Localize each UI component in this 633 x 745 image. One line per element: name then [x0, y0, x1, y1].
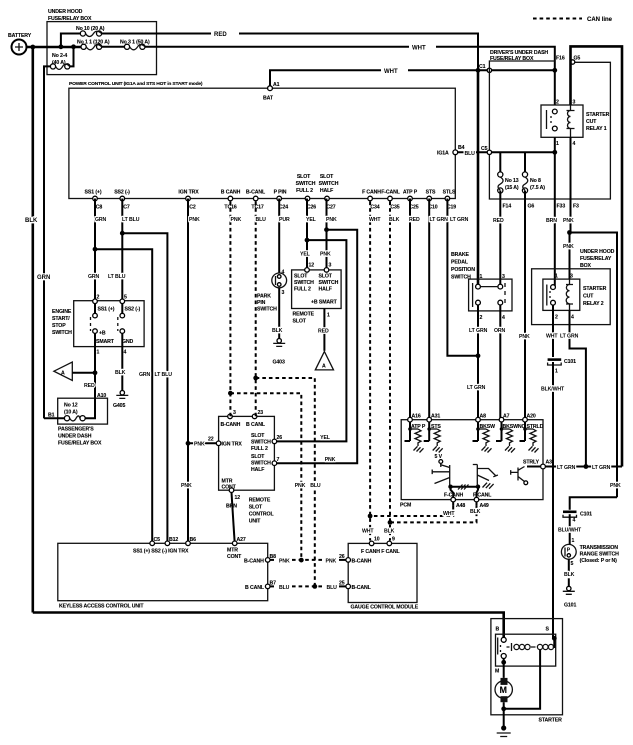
node F16 vertical joins BAT line — [552, 68, 557, 73]
CAN line legend — [533, 18, 582, 20]
pin TC16 B CANH — [228, 196, 233, 201]
pin 3 B-CANH — [228, 414, 233, 419]
svg-text:BLK: BLK — [564, 572, 575, 578]
svg-text:BLK: BLK — [384, 529, 395, 535]
svg-text:CONTROL: CONTROL — [249, 512, 275, 518]
pin C7 SS2 — [120, 196, 125, 201]
node no10 junction — [59, 44, 64, 49]
svg-text:23: 23 — [258, 410, 264, 416]
wire MTR CONT BRN down to keyless A27 — [232, 493, 235, 544]
svg-text:FUSE/RELAY BOX: FUSE/RELAY BOX — [58, 441, 102, 447]
svg-text:UNDER DASH: UNDER DASH — [58, 434, 92, 440]
svg-text:PEDAL: PEDAL — [451, 260, 469, 266]
svg-text:BRN: BRN — [546, 218, 557, 224]
svg-text:4: 4 — [571, 315, 574, 321]
wire F16 down to relay1 pin2 — [554, 70, 556, 105]
svg-text:GND: GND — [122, 339, 134, 345]
svg-text:TC17: TC17 — [251, 205, 263, 211]
svg-text:A48: A48 — [456, 503, 465, 509]
node relay2 LT GRN joins — [584, 464, 589, 469]
svg-text:BLU: BLU — [279, 585, 290, 591]
svg-text:PNK: PNK — [189, 217, 200, 223]
svg-text:M: M — [495, 669, 499, 675]
svg-text:WHT: WHT — [384, 69, 398, 75]
svg-text:B CANL: B CANL — [245, 585, 265, 591]
svg-text:3: 3 — [282, 290, 285, 296]
svg-text:(10 A): (10 A) — [64, 410, 78, 416]
pin B8 B-CANH — [265, 558, 270, 563]
contact bars — [472, 283, 474, 307]
connector C101 pin4 — [563, 510, 577, 513]
svg-text:YEL: YEL — [306, 217, 317, 223]
svg-text:9: 9 — [392, 537, 395, 543]
off-page triangle A — [315, 352, 333, 370]
svg-text:LT GRN: LT GRN — [430, 217, 449, 223]
svg-text:PUR: PUR — [279, 217, 290, 223]
wire SS1 GRN down — [94, 199, 96, 302]
svg-text:LT GRN: LT GRN — [592, 465, 611, 471]
wire A48 WHT dashed to bus — [452, 502, 454, 506]
pin C34 F CANH — [368, 196, 373, 201]
svg-text:SS2 (-): SS2 (-) — [125, 307, 141, 313]
svg-text:1: 1 — [556, 141, 559, 147]
dashed B-CANL branch — [256, 378, 315, 586]
svg-text:1: 1 — [555, 274, 558, 280]
pin 4 — [498, 300, 503, 305]
svg-text:LT GRN: LT GRN — [560, 334, 579, 340]
svg-text:PNK: PNK — [326, 559, 337, 565]
svg-text:C26: C26 — [307, 205, 316, 211]
node relay1 pin1 joins C5 line — [552, 150, 557, 155]
switch contact SS2 — [121, 303, 123, 313]
svg-text:No 3 1 (50 A): No 3 1 (50 A) — [120, 40, 150, 46]
pin 1 — [476, 284, 481, 289]
svg-text:GRN: GRN — [88, 274, 100, 280]
svg-text:No 2-4: No 2-4 — [52, 53, 67, 59]
svg-text:PNK: PNK — [326, 217, 337, 223]
dashed B-CANL vertical from TC17 — [255, 202, 257, 417]
svg-text:B-CANL: B-CANL — [246, 190, 266, 196]
ground G405 — [120, 391, 124, 395]
svg-text:PNK: PNK — [181, 483, 192, 489]
dashed wire B8 to gauge 26 — [270, 559, 274, 561]
svg-text:G405: G405 — [113, 403, 125, 409]
svg-text:4: 4 — [502, 315, 505, 321]
svg-text:FULL 2: FULL 2 — [296, 188, 313, 194]
svg-text:BAT: BAT — [263, 96, 274, 102]
SECTION: engine switch — [44, 199, 167, 544]
wire G6 PNK down to A20 — [524, 191, 526, 420]
svg-text:SWITCH: SWITCH — [319, 181, 339, 187]
transmission range switch — [561, 544, 576, 559]
svg-text:BATTERY: BATTERY — [8, 33, 32, 39]
svg-text:(7.5 A): (7.5 A) — [530, 185, 545, 191]
pin A7 BKSWNC — [499, 417, 504, 422]
svg-text:STARTER: STARTER — [586, 112, 610, 118]
pin 26 B-CANH — [346, 558, 351, 563]
wire brake pin4 ORN down — [500, 305, 501, 420]
pin C19 STLS — [445, 196, 450, 201]
svg-text:STARTER: STARTER — [583, 286, 607, 292]
label BLU on B-CANL dashed — [310, 482, 321, 488]
connector C101 pin1 — [548, 358, 562, 361]
wire YEL branch to rscu pin26 — [277, 240, 346, 441]
svg-text:POWER CONTROL UNIT (IG1A and: POWER CONTROL UNIT (IG1A and STS HOT in … — [69, 81, 203, 87]
svg-text:+B SMART: +B SMART — [311, 300, 338, 306]
node battery junction — [30, 45, 35, 50]
pin 7 slot switch half — [272, 461, 277, 466]
svg-text:SS2 (-): SS2 (-) — [114, 190, 130, 196]
pulldown resistor A16 — [405, 422, 424, 453]
svg-text:PNK: PNK — [320, 252, 331, 258]
svg-text:CUT: CUT — [586, 119, 597, 125]
wire relay2 pin4 LT GRN down right — [570, 310, 586, 466]
twisted pair hatch — [451, 486, 479, 488]
svg-text:F CANH F CANL: F CANH F CANL — [361, 549, 400, 555]
svg-text:10: 10 — [374, 537, 380, 543]
pin A16 ATP P — [408, 417, 413, 422]
wire RED down to C5 line and brake switch — [477, 70, 480, 286]
pin B7 B CANL — [265, 584, 270, 589]
wire battery to fusebox — [27, 46, 84, 49]
wire branch to rscu pin 22 — [188, 442, 216, 444]
wire to No10 fuse — [61, 34, 81, 47]
transistor Q1 — [432, 463, 450, 487]
fuse No 13 (15 A) — [498, 172, 503, 177]
connector C1 — [487, 68, 491, 72]
wire pin1 RED down — [94, 347, 96, 399]
wire IGN TRX PNK down to keyless B6 — [187, 199, 189, 544]
svg-text:PNK: PNK — [325, 457, 336, 463]
svg-text:G101: G101 — [564, 603, 576, 609]
svg-text:BLU/WHT: BLU/WHT — [558, 528, 582, 534]
wire IG1A to C5 fuses — [458, 151, 555, 153]
svg-text:RELAY 2: RELAY 2 — [583, 301, 604, 307]
svg-text:GAUGE CONTROL MODULE: GAUGE CONTROL MODULE — [351, 605, 419, 611]
svg-text:M: M — [500, 685, 508, 695]
svg-text:STRLY: STRLY — [523, 460, 540, 466]
node F-CANL — [476, 485, 480, 489]
wire SS1 branch to keyless C5 — [95, 249, 152, 543]
wire coil return up — [504, 650, 540, 709]
wire C10 LT GRN down to A31 — [428, 199, 430, 420]
relay1 contact — [552, 109, 557, 114]
svg-text:PASSENGER'S: PASSENGER'S — [58, 427, 94, 433]
wire to fuse No13 — [499, 152, 501, 174]
svg-text:LT GRN: LT GRN — [450, 217, 469, 223]
relay2 contact — [551, 285, 556, 290]
svg-text:7: 7 — [277, 457, 280, 463]
svg-text:SWITCH: SWITCH — [294, 280, 314, 286]
svg-text:GRN: GRN — [95, 217, 107, 223]
svg-text:No 13: No 13 — [505, 178, 519, 184]
svg-text:LT GRN: LT GRN — [467, 385, 486, 391]
dashed wire B7 to gauge 25 — [270, 585, 274, 587]
ground starter — [501, 725, 506, 730]
SECTION: legend — [533, 17, 613, 23]
starter box — [491, 619, 563, 715]
svg-text:SS1 (+): SS1 (+) — [98, 307, 115, 313]
wire F3 PNK down to junction — [570, 199, 572, 233]
svg-text:G6: G6 — [528, 204, 535, 210]
wire YEL down — [306, 199, 308, 270]
ground G403 — [277, 339, 281, 343]
svg-text:A49: A49 — [480, 503, 489, 509]
park pin switch — [272, 273, 287, 288]
svg-text:SLOT: SLOT — [249, 505, 263, 511]
node B-CANL joins — [312, 584, 317, 589]
node RED joins BAT line — [476, 68, 481, 73]
svg-text:3: 3 — [573, 100, 576, 106]
svg-text:WHT: WHT — [546, 334, 558, 340]
node SS1 branch — [93, 247, 98, 252]
svg-text:12: 12 — [309, 263, 315, 269]
svg-text:1: 1 — [327, 313, 330, 319]
svg-text:C34: C34 — [370, 205, 379, 211]
svg-text:BLK/WHT: BLK/WHT — [541, 387, 565, 393]
svg-text:3: 3 — [570, 274, 573, 280]
node PNK branch — [324, 227, 329, 232]
svg-text:4: 4 — [573, 141, 576, 147]
svg-text:UNDER HOOD: UNDER HOOD — [580, 249, 615, 255]
svg-text:PNK: PNK — [279, 559, 290, 565]
svg-text:26: 26 — [277, 435, 283, 441]
svg-text:No 8: No 8 — [530, 178, 541, 184]
svg-text:A3: A3 — [546, 460, 553, 466]
svg-text:STLS: STLS — [443, 190, 456, 196]
fuse No 12 (10 A) — [85, 398, 95, 418]
svg-text:ORN: ORN — [494, 328, 506, 334]
svg-text:25: 25 — [339, 581, 345, 587]
wire park pin BLK down — [278, 288, 280, 339]
pulldown resistor A8 — [473, 422, 492, 453]
svg-text:3: 3 — [502, 274, 505, 280]
svg-text:A1: A1 — [273, 82, 280, 88]
wire to fuse No8 — [524, 152, 526, 174]
dashed F CANH vertical — [369, 202, 371, 541]
wire PNK right side to C101 pin4 — [570, 497, 617, 510]
svg-text:C1: C1 — [479, 64, 486, 70]
label PNK on B-CANH dashed — [294, 482, 307, 488]
svg-text:IGN TRX: IGN TRX — [222, 442, 243, 448]
wire STLS from C19 — [447, 199, 478, 356]
svg-text:LT BLU: LT BLU — [122, 217, 140, 223]
svg-text:BLU: BLU — [310, 483, 321, 489]
svg-text:+B: +B — [99, 331, 106, 337]
svg-text:C8: C8 — [96, 205, 103, 211]
SECTION: brake relay2 trs — [410, 199, 622, 639]
node B-CANH joins — [299, 558, 304, 563]
pin B4 IG1A — [453, 150, 458, 155]
wire SS2 branch to keyless B12 — [122, 233, 167, 543]
SECTION: drivers box relay1 — [437, 46, 622, 497]
pin C35 F-CANL — [388, 196, 393, 201]
svg-text:BLU: BLU — [327, 585, 338, 591]
off-page triangle A — [54, 362, 72, 380]
dashed B-CANH branch to keyless B8 line — [230, 393, 301, 560]
svg-text:PNK: PNK — [610, 483, 621, 489]
wire F14 RED down to brake pin3 — [499, 191, 501, 287]
pin A3 STRLY — [541, 464, 546, 469]
node F CANL bus — [388, 520, 393, 525]
node F-CANH — [448, 485, 452, 489]
svg-text:BOX: BOX — [580, 263, 592, 269]
svg-text:P PIN: P PIN — [274, 190, 287, 196]
svg-text:F16: F16 — [556, 56, 565, 62]
svg-text:A10: A10 — [97, 393, 106, 399]
node F CANH bus — [368, 514, 373, 519]
wire relay2 pin2 WHT down — [552, 305, 554, 357]
pin C8 SS1 — [93, 196, 98, 201]
svg-text:C101: C101 — [580, 512, 592, 518]
svg-text:RANGE SWITCH: RANGE SWITCH — [580, 552, 620, 558]
node IGN TRX branch — [186, 441, 191, 446]
svg-text:WHT: WHT — [369, 217, 381, 223]
svg-text:2: 2 — [555, 315, 558, 321]
svg-text:SWITCH: SWITCH — [251, 440, 271, 446]
svg-text:1: 1 — [480, 274, 483, 280]
svg-text:SLOT: SLOT — [251, 433, 265, 439]
pin C26 SLOT SWITCH FULL 2 — [305, 196, 310, 201]
wire brake pin2 LT GRN down — [477, 305, 479, 420]
svg-text:G403: G403 — [273, 360, 285, 366]
wire SS2 LT BLU down — [121, 199, 123, 302]
svg-text:C101: C101 — [564, 359, 576, 365]
svg-text:2: 2 — [480, 315, 483, 321]
dashed B-CANH vertical from TC16 — [229, 202, 231, 417]
svg-text:C5: C5 — [154, 537, 161, 543]
svg-text:2: 2 — [97, 295, 100, 301]
SECTION: park pin slot — [257, 199, 357, 464]
wire F33 BRN down to relay2 pin1 — [554, 199, 556, 287]
svg-text:YEL: YEL — [320, 435, 331, 441]
svg-text:4: 4 — [282, 270, 285, 276]
pin C5 — [150, 541, 155, 546]
svg-text:CUT: CUT — [583, 294, 594, 300]
pulldown resistor A31 — [424, 422, 443, 453]
svg-text:LT GRN: LT GRN — [469, 328, 488, 334]
svg-text:PNK: PNK — [563, 218, 574, 224]
wire fuse2-4 to main — [70, 47, 74, 67]
engine start/stop switch box — [74, 301, 144, 347]
passengers under dash fuse/relay box — [58, 398, 108, 424]
svg-text:BLK: BLK — [115, 370, 126, 376]
node PNK junction — [567, 230, 572, 235]
svg-text:IGN TRX: IGN TRX — [178, 190, 199, 196]
wire pin4 BLK down to G405 — [121, 347, 123, 391]
svg-text:3: 3 — [233, 410, 236, 416]
SECTION: pcm — [368, 202, 552, 541]
svg-text:WHT: WHT — [443, 511, 455, 517]
svg-text:CONT: CONT — [227, 554, 242, 560]
transistor Q2 — [473, 465, 498, 487]
svg-text:RED: RED — [409, 217, 420, 223]
pin 5 — [120, 299, 125, 304]
wire BLK/WHT down to starter S — [552, 362, 554, 638]
pin C25 ATP P — [408, 196, 413, 201]
fuse No 8 (7.5 A) — [522, 172, 527, 177]
svg-text:5: 5 — [124, 295, 127, 301]
pin 9 F CANL — [387, 541, 392, 546]
svg-text:C2: C2 — [189, 205, 196, 211]
svg-text:HALF: HALF — [251, 467, 264, 473]
svg-text:HALF: HALF — [319, 287, 332, 293]
svg-text:PCM: PCM — [400, 503, 411, 509]
relay2 coil — [566, 285, 573, 305]
pin A1 — [268, 86, 273, 91]
svg-text:GRN: GRN — [37, 275, 50, 281]
SECTION: rscu — [186, 199, 283, 544]
svg-text:REMOTE: REMOTE — [249, 498, 271, 504]
node B-CANL branch — [253, 376, 258, 381]
svg-text:SS1 (+): SS1 (+) — [85, 190, 102, 196]
pin C10 STS — [427, 196, 432, 201]
pin A8 BKSW — [476, 417, 481, 422]
svg-text:HALF: HALF — [320, 188, 333, 194]
wire relay1 pin1 down to F33 — [554, 137, 556, 199]
wire A49 BLK dashed to bus — [476, 502, 478, 506]
svg-text:PNK: PNK — [194, 442, 205, 448]
wire PUR down — [278, 199, 280, 274]
svg-text:SLOT: SLOT — [251, 454, 265, 460]
wire fuse2-4 left down GRN — [44, 66, 50, 418]
pin 22 IGN TRX — [216, 441, 221, 446]
pin 10 F CANH — [369, 541, 374, 546]
svg-text:WHT: WHT — [412, 46, 426, 52]
wire between fuses — [102, 46, 125, 48]
svg-text:F CANH: F CANH — [362, 190, 381, 196]
svg-text:B-CANH: B-CANH — [352, 559, 372, 565]
PCM box — [401, 420, 543, 500]
svg-text:B CANH: B CANH — [221, 190, 241, 196]
node coil return — [501, 706, 506, 711]
pin 2 — [93, 299, 98, 304]
svg-text:RED: RED — [214, 32, 227, 38]
wire WHT line to F16 — [145, 47, 555, 71]
svg-text:12: 12 — [235, 495, 241, 501]
dashed F CANL vertical — [389, 202, 391, 541]
svg-text:BLK: BLK — [272, 328, 283, 334]
svg-text:C27: C27 — [326, 205, 335, 211]
node STLS joins — [476, 353, 481, 358]
rscu box — [219, 416, 275, 490]
pin 2 — [476, 300, 481, 305]
svg-text:FULL 2: FULL 2 — [251, 446, 268, 452]
svg-text:B6: B6 — [190, 537, 197, 543]
svg-text:B CANL: B CANL — [246, 422, 266, 428]
svg-text:SLOT: SLOT — [319, 274, 333, 280]
svg-text:3: 3 — [329, 263, 332, 269]
svg-text:B-CANH: B-CANH — [244, 559, 264, 565]
svg-text:FUSE/RELAY: FUSE/RELAY — [580, 256, 612, 262]
pin B12 — [165, 541, 170, 546]
switch contact SS1 — [94, 303, 96, 313]
svg-text:F-CANL: F-CANL — [381, 190, 401, 196]
svg-text:(15 A): (15 A) — [505, 185, 519, 191]
svg-text:WHT: WHT — [362, 529, 374, 535]
wire PNK branch right and down — [570, 233, 618, 498]
svg-text:B12: B12 — [169, 537, 178, 543]
node M junction — [501, 660, 506, 665]
svg-text:PNK: PNK — [563, 244, 574, 250]
svg-text:C35: C35 — [390, 205, 399, 211]
node triangle A branch — [93, 370, 98, 375]
wire BLK bottom to starter B — [33, 613, 504, 640]
svg-text:KEYLESS ACCESS CONTROL UNIT: KEYLESS ACCESS CONTROL UNIT — [59, 604, 144, 610]
wire PNK branch to rscu pin7 — [277, 230, 357, 464]
SECTION: battery-fusebox — [8, 9, 555, 613]
relay1 box — [541, 105, 583, 137]
